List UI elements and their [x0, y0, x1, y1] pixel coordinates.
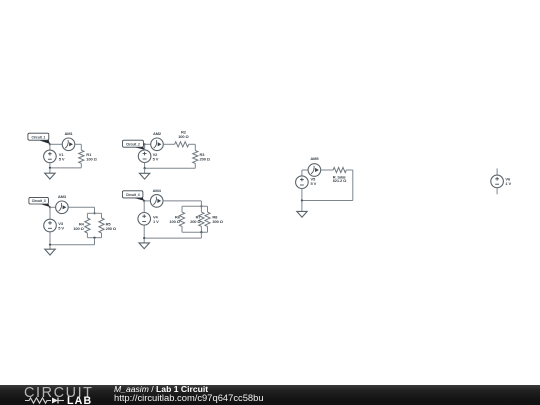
- ground C1: [45, 173, 55, 179]
- wire node to AM1: [50, 143, 62, 145]
- voltage source V1: [44, 150, 57, 163]
- node Circuit_2 top junction: [144, 143, 146, 145]
- wire AM1 to corner: [75, 143, 82, 145]
- wire bottom C3: [50, 244, 95, 246]
- wire to R4: [86, 213, 88, 218]
- resistor R7: [199, 212, 204, 226]
- ammeter AM2: [151, 138, 164, 151]
- wire down to bottom C4: [200, 232, 202, 238]
- wire bottom C4: [144, 237, 201, 239]
- voltage source V5: [296, 176, 309, 189]
- wire node to V1: [49, 144, 51, 150]
- net label flag Circuit_3: [38, 203, 50, 207]
- svg-text:200 Ω: 200 Ω: [200, 156, 211, 161]
- svg-text:300 Ω: 300 Ω: [212, 219, 223, 224]
- wire to ground C4: [143, 238, 145, 243]
- wire AM5 to R_total: [321, 169, 333, 171]
- wire node to AM4: [144, 200, 150, 202]
- wire parallel bottom bar C4: [182, 231, 208, 233]
- svg-text:200 Ω: 200 Ω: [190, 219, 201, 224]
- node Circuit_3 top junction: [49, 206, 51, 208]
- resistor R_total: [333, 167, 346, 172]
- voltage source V4: [138, 213, 151, 226]
- svg-text:AM3: AM3: [58, 194, 67, 199]
- wire R8 to bottom bar: [207, 226, 209, 232]
- svg-text:100 Ω: 100 Ω: [73, 226, 84, 231]
- wire V4 to bottom: [143, 225, 145, 238]
- junction V5 bottom: [301, 199, 303, 201]
- wire to R6: [181, 206, 183, 212]
- svg-text:AM4: AM4: [153, 188, 162, 193]
- resistor R4: [85, 218, 90, 233]
- wire R3 to bottom: [194, 163, 196, 168]
- CircuitLab logo: [24, 385, 94, 405]
- wire parallel bottom bar C3: [87, 237, 101, 239]
- svg-text:Circuit_2: Circuit_2: [126, 142, 140, 146]
- ground C2: [139, 173, 149, 179]
- svg-text:AM2: AM2: [153, 131, 162, 136]
- ground C4: [139, 243, 149, 249]
- wire bottom C1: [50, 167, 81, 169]
- ammeter AM3: [56, 201, 69, 214]
- svg-text:AM5: AM5: [310, 156, 319, 161]
- ammeter AM5: [308, 164, 321, 177]
- wire parallel top bar C3: [87, 212, 101, 214]
- wire V3 to bottom: [49, 232, 51, 245]
- junction parallel top C4: [200, 205, 202, 207]
- wire R1 to bottom: [80, 163, 82, 168]
- wire corner down to split: [94, 207, 96, 213]
- svg-text:5 V: 5 V: [58, 226, 64, 231]
- wire V5 to bottom: [301, 189, 303, 201]
- wire corner down to V5: [301, 170, 303, 176]
- voltage source V2: [138, 150, 151, 163]
- voltage source V6: [491, 175, 504, 188]
- ground C3: [45, 249, 55, 255]
- junction parallel bottom C4: [200, 231, 202, 233]
- svg-text:5 V: 5 V: [59, 157, 65, 162]
- svg-text:Circuit_4: Circuit_4: [126, 193, 140, 197]
- net label box Circuit_3: [29, 197, 49, 204]
- wire V6 bottom stub: [496, 188, 498, 195]
- junction V2 bottom: [144, 167, 146, 169]
- node Circuit_1 top junction: [49, 143, 51, 145]
- wire AM3 to corner: [68, 206, 94, 208]
- svg-text:200 Ω: 200 Ω: [106, 226, 117, 231]
- wire AM2 to R2: [163, 143, 174, 145]
- wire parallel top bar C4: [182, 205, 208, 207]
- svg-text:100 Ω: 100 Ω: [169, 219, 180, 224]
- svg-text:1 V: 1 V: [505, 181, 511, 186]
- wire to ground C1: [49, 168, 51, 173]
- wire node to V2: [144, 144, 146, 150]
- ground C5: [297, 211, 307, 217]
- wire to ground C5: [301, 201, 303, 212]
- logo diode: [52, 398, 58, 404]
- wire right side down C5: [352, 170, 354, 201]
- junction parallel top C3: [93, 212, 95, 214]
- net label box Circuit_1: [28, 133, 49, 140]
- wire R_total to corner: [346, 169, 353, 171]
- net label flag Circuit_2: [132, 147, 145, 150]
- wire node to AM2: [145, 143, 151, 145]
- net label box Circuit_2: [123, 140, 144, 147]
- wire V1 to bottom: [49, 163, 51, 168]
- resistor R3: [193, 151, 198, 164]
- footer bar: [0, 385, 540, 405]
- ammeter AM4: [150, 195, 163, 208]
- wire AM4 to corner: [163, 200, 201, 202]
- wire R7 to bottom bar: [200, 226, 202, 232]
- svg-text:5 V: 5 V: [311, 181, 317, 186]
- svg-text:100 Ω: 100 Ω: [86, 156, 97, 161]
- ammeter AM1: [62, 138, 75, 151]
- svg-text:621.2 Ω: 621.2 Ω: [333, 178, 347, 183]
- resistor R6: [179, 212, 184, 226]
- wire R2 to corner: [189, 143, 196, 145]
- junction parallel bottom C3: [93, 237, 95, 239]
- wire corner down to R1: [80, 144, 82, 150]
- wire split to bottom: [94, 238, 96, 245]
- wire top bar to R7: [200, 206, 202, 212]
- resistor R2: [175, 142, 189, 147]
- wire R4 to bottom bar: [86, 233, 88, 238]
- junction V1 bottom: [49, 167, 51, 169]
- resistor R8: [205, 212, 210, 226]
- wire node to AM3: [50, 206, 56, 208]
- wire bottom C2: [145, 167, 196, 169]
- wire V2 to bottom: [144, 163, 146, 169]
- wire node to V3: [49, 207, 51, 219]
- svg-text:AM1: AM1: [64, 131, 73, 136]
- resistor R5: [99, 218, 104, 233]
- wire to ground C2: [144, 168, 146, 173]
- net label box Circuit_4: [122, 191, 142, 198]
- net label flag Circuit_4: [132, 197, 145, 200]
- wire R6 to bottom bar: [181, 226, 183, 232]
- wire to R8: [207, 206, 209, 212]
- wire R5 to bottom bar: [101, 233, 103, 238]
- wire corner down to R3: [194, 144, 196, 150]
- junction V3 bottom: [49, 244, 51, 246]
- wire V6 top stub: [496, 168, 498, 175]
- wire bottom C5: [302, 200, 353, 202]
- svg-text:100 Ω: 100 Ω: [178, 134, 189, 139]
- svg-text:LAB: LAB: [67, 395, 92, 405]
- net label flag Circuit_1: [37, 140, 50, 144]
- voltage source V3: [44, 219, 57, 232]
- attribution text: [114, 385, 264, 403]
- svg-text:1 V: 1 V: [153, 219, 159, 224]
- logo resistor zigzag: [25, 398, 51, 403]
- wire V5 corner to AM5: [302, 169, 308, 171]
- svg-text:Circuit_3: Circuit_3: [32, 199, 46, 203]
- wire corner down C4: [200, 201, 202, 206]
- wire to ground C3: [49, 245, 51, 250]
- wire to R5: [101, 213, 103, 218]
- wire node to V4: [143, 201, 145, 213]
- node Circuit_4 top junction: [143, 200, 145, 202]
- junction V4 bottom: [143, 237, 145, 239]
- svg-text:Circuit_1: Circuit_1: [31, 135, 45, 139]
- resistor R1: [79, 150, 84, 163]
- svg-text:5 V: 5 V: [153, 157, 159, 162]
